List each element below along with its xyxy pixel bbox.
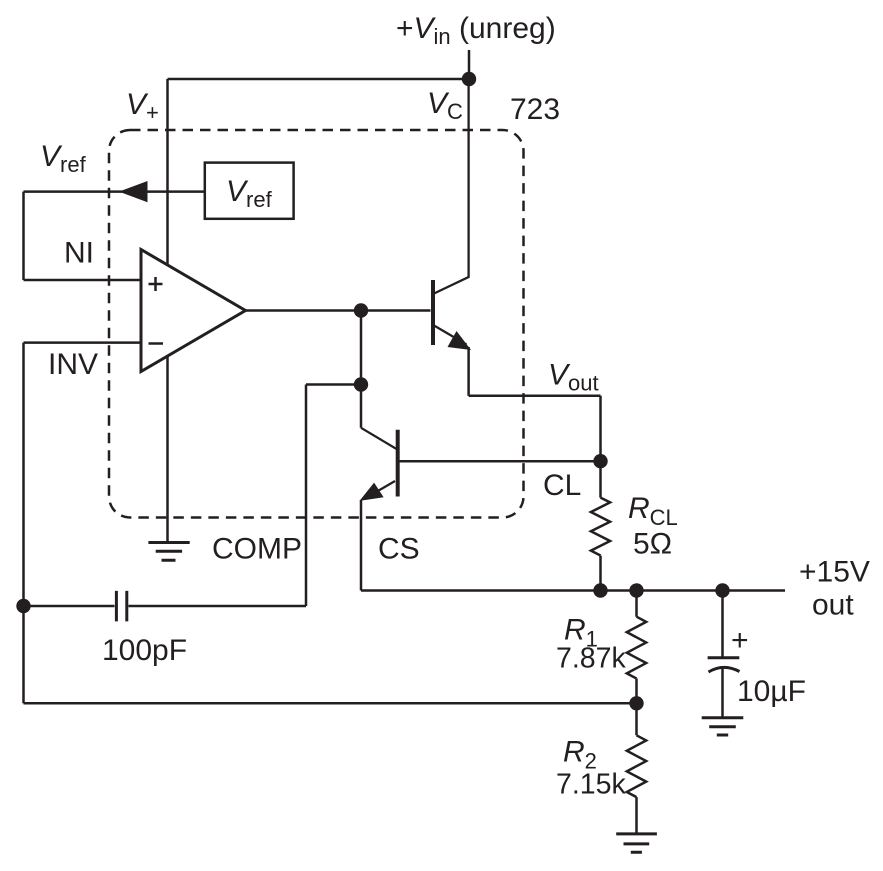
node dot 10uF top — [715, 583, 729, 597]
capacitor C2 10uF straight plate — [708, 656, 740, 659]
wire top rail from V+ to Vin node — [168, 78, 470, 81]
node dot RCL bottom — [593, 583, 607, 597]
node dot COMP tap — [354, 377, 368, 391]
transistor Q2 collector lead — [361, 428, 397, 449]
svg-text:+Vin (unreg): +Vin (unreg) — [396, 12, 556, 49]
wire Q1 emitter down to Vout lead — [467, 347, 470, 396]
svg-text:5Ω: 5Ω — [633, 528, 672, 561]
svg-text:+15V: +15V — [799, 556, 870, 589]
svg-text:7.15k: 7.15k — [556, 769, 626, 801]
svg-text:NI: NI — [64, 237, 94, 270]
svg-text:+: + — [731, 624, 749, 657]
svg-text:Vref: Vref — [40, 140, 87, 177]
capacitor C2 10uF bottom wire — [721, 668, 724, 718]
resistor R1 leads — [635, 591, 638, 704]
wire COMP vertical down to 100pF — [305, 385, 308, 607]
wire CS emitter down to output rail — [360, 500, 363, 591]
transistor Q2 current-limit base bar — [396, 430, 400, 497]
wire Vout down to CL node — [599, 396, 602, 461]
arrowhead on Vref output pointing left — [119, 181, 148, 202]
capacitor C2 10uF curved plate — [709, 667, 740, 672]
node dot CL junction — [593, 454, 607, 468]
node dot on op-amp output — [354, 303, 368, 317]
resistor RCL leads — [599, 461, 602, 590]
svg-text:RCL: RCL — [628, 492, 678, 530]
svg-text:CS: CS — [378, 533, 420, 566]
wire V+ vertical lower to ground — [166, 356, 169, 542]
ground under 10uF — [702, 718, 744, 735]
resistor R1 zigzag — [627, 617, 646, 679]
ground under R2 — [616, 834, 657, 852]
node dot R1-R2 junction — [629, 696, 643, 710]
wire NI loop vertical — [22, 192, 25, 280]
node dot at +Vin junction — [462, 72, 476, 86]
transistor Q1 emitter lead — [434, 326, 467, 345]
svg-text:10µF: 10µF — [737, 675, 806, 708]
capacitor C1 100pF right wire — [129, 605, 307, 608]
op-amp plus input sign — [149, 277, 163, 291]
ground (op-amp V- pin inside 723) — [148, 543, 189, 561]
capacitor C2 10uF top wire — [721, 591, 724, 658]
wire Vout horizontal — [469, 395, 601, 398]
resistor RCL zigzag — [591, 498, 610, 556]
wire op-amp output to Q1 base — [246, 309, 431, 312]
wire Vref output to left rail — [24, 190, 205, 193]
wire INV left vertical down to bottom rail — [22, 343, 25, 704]
resistor R2 leads — [635, 703, 638, 833]
dashed 723 IC boundary box — [109, 130, 524, 518]
svg-text:COMP: COMP — [212, 533, 302, 566]
wire vertical from output node to Q2 collector — [360, 311, 363, 428]
transistor Q1 pass transistor base bar — [431, 280, 435, 345]
svg-text:VC: VC — [427, 87, 463, 124]
svg-text:out: out — [812, 589, 854, 622]
op-amp minus input sign — [149, 342, 164, 345]
wire INV input into op-amp — [24, 341, 142, 344]
wire Vin stub — [468, 50, 471, 79]
capacitor C1 100pF plates — [116, 591, 126, 622]
resistor R2 zigzag — [627, 735, 646, 797]
capacitor C1 100pF left wire — [24, 605, 115, 608]
node junction dot at 100pF tap — [16, 599, 30, 613]
wire V+ vertical upper (stops at op-amp top edge) — [166, 79, 169, 266]
svg-text:723: 723 — [510, 93, 560, 126]
transistor Q1 collector lead — [434, 79, 469, 294]
node dot R1 top — [629, 583, 643, 597]
wire NI input into op-amp — [24, 279, 142, 282]
Vref block box — [205, 163, 294, 219]
wire COMP horizontal — [306, 383, 361, 386]
wire +15V output rail — [361, 589, 785, 592]
svg-text:100pF: 100pF — [102, 634, 187, 667]
svg-text:7.87k: 7.87k — [556, 643, 626, 675]
transistor Q2 emitter arrowhead — [360, 483, 384, 501]
transistor Q2 emitter lead — [365, 481, 395, 499]
wire bottom feedback rail — [24, 702, 637, 705]
transistor Q2 base lead to CL node — [399, 460, 601, 463]
svg-text:Vout: Vout — [548, 359, 599, 396]
svg-text:CL: CL — [543, 469, 581, 502]
svg-text:V+: V+ — [126, 88, 159, 125]
svg-text:INV: INV — [48, 348, 98, 381]
op-amp U1 error amplifier triangle — [141, 250, 246, 372]
transistor Q1 emitter arrowhead — [448, 331, 472, 350]
